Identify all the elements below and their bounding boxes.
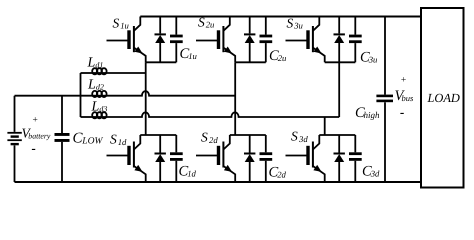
svg-text:-: -	[400, 105, 404, 120]
svg-text:+: +	[400, 75, 406, 85]
svg-text:-: -	[32, 141, 36, 156]
svg-text:LOW: LOW	[81, 137, 103, 147]
svg-text:d2: d2	[96, 83, 104, 92]
svg-text:+: +	[32, 116, 38, 126]
svg-text:2d: 2d	[277, 170, 286, 180]
svg-text:battery: battery	[28, 132, 51, 141]
svg-text:1d: 1d	[118, 137, 127, 147]
svg-text:L: L	[87, 77, 96, 92]
svg-text:d1: d1	[95, 61, 103, 70]
svg-text:S: S	[291, 129, 298, 144]
svg-text:2u: 2u	[206, 20, 215, 30]
svg-text:L: L	[91, 99, 100, 114]
svg-text:2d: 2d	[209, 135, 218, 145]
svg-text:LOAD: LOAD	[427, 91, 460, 105]
svg-text:S: S	[201, 130, 208, 145]
svg-text:high: high	[364, 110, 381, 120]
svg-text:S: S	[287, 15, 294, 30]
svg-text:3u: 3u	[368, 55, 378, 65]
svg-text:bus: bus	[402, 93, 415, 103]
svg-text:3u: 3u	[293, 21, 303, 31]
svg-text:2u: 2u	[278, 53, 287, 63]
svg-text:d3: d3	[99, 105, 107, 114]
svg-text:1d: 1d	[187, 169, 196, 179]
svg-text:3d: 3d	[298, 134, 308, 144]
svg-text:S: S	[113, 15, 120, 30]
svg-text:1u: 1u	[188, 51, 197, 61]
svg-text:S: S	[198, 14, 205, 29]
svg-text:3d: 3d	[370, 169, 380, 179]
svg-text:1u: 1u	[120, 21, 129, 31]
svg-text:L: L	[87, 55, 96, 70]
svg-text:S: S	[110, 132, 117, 147]
